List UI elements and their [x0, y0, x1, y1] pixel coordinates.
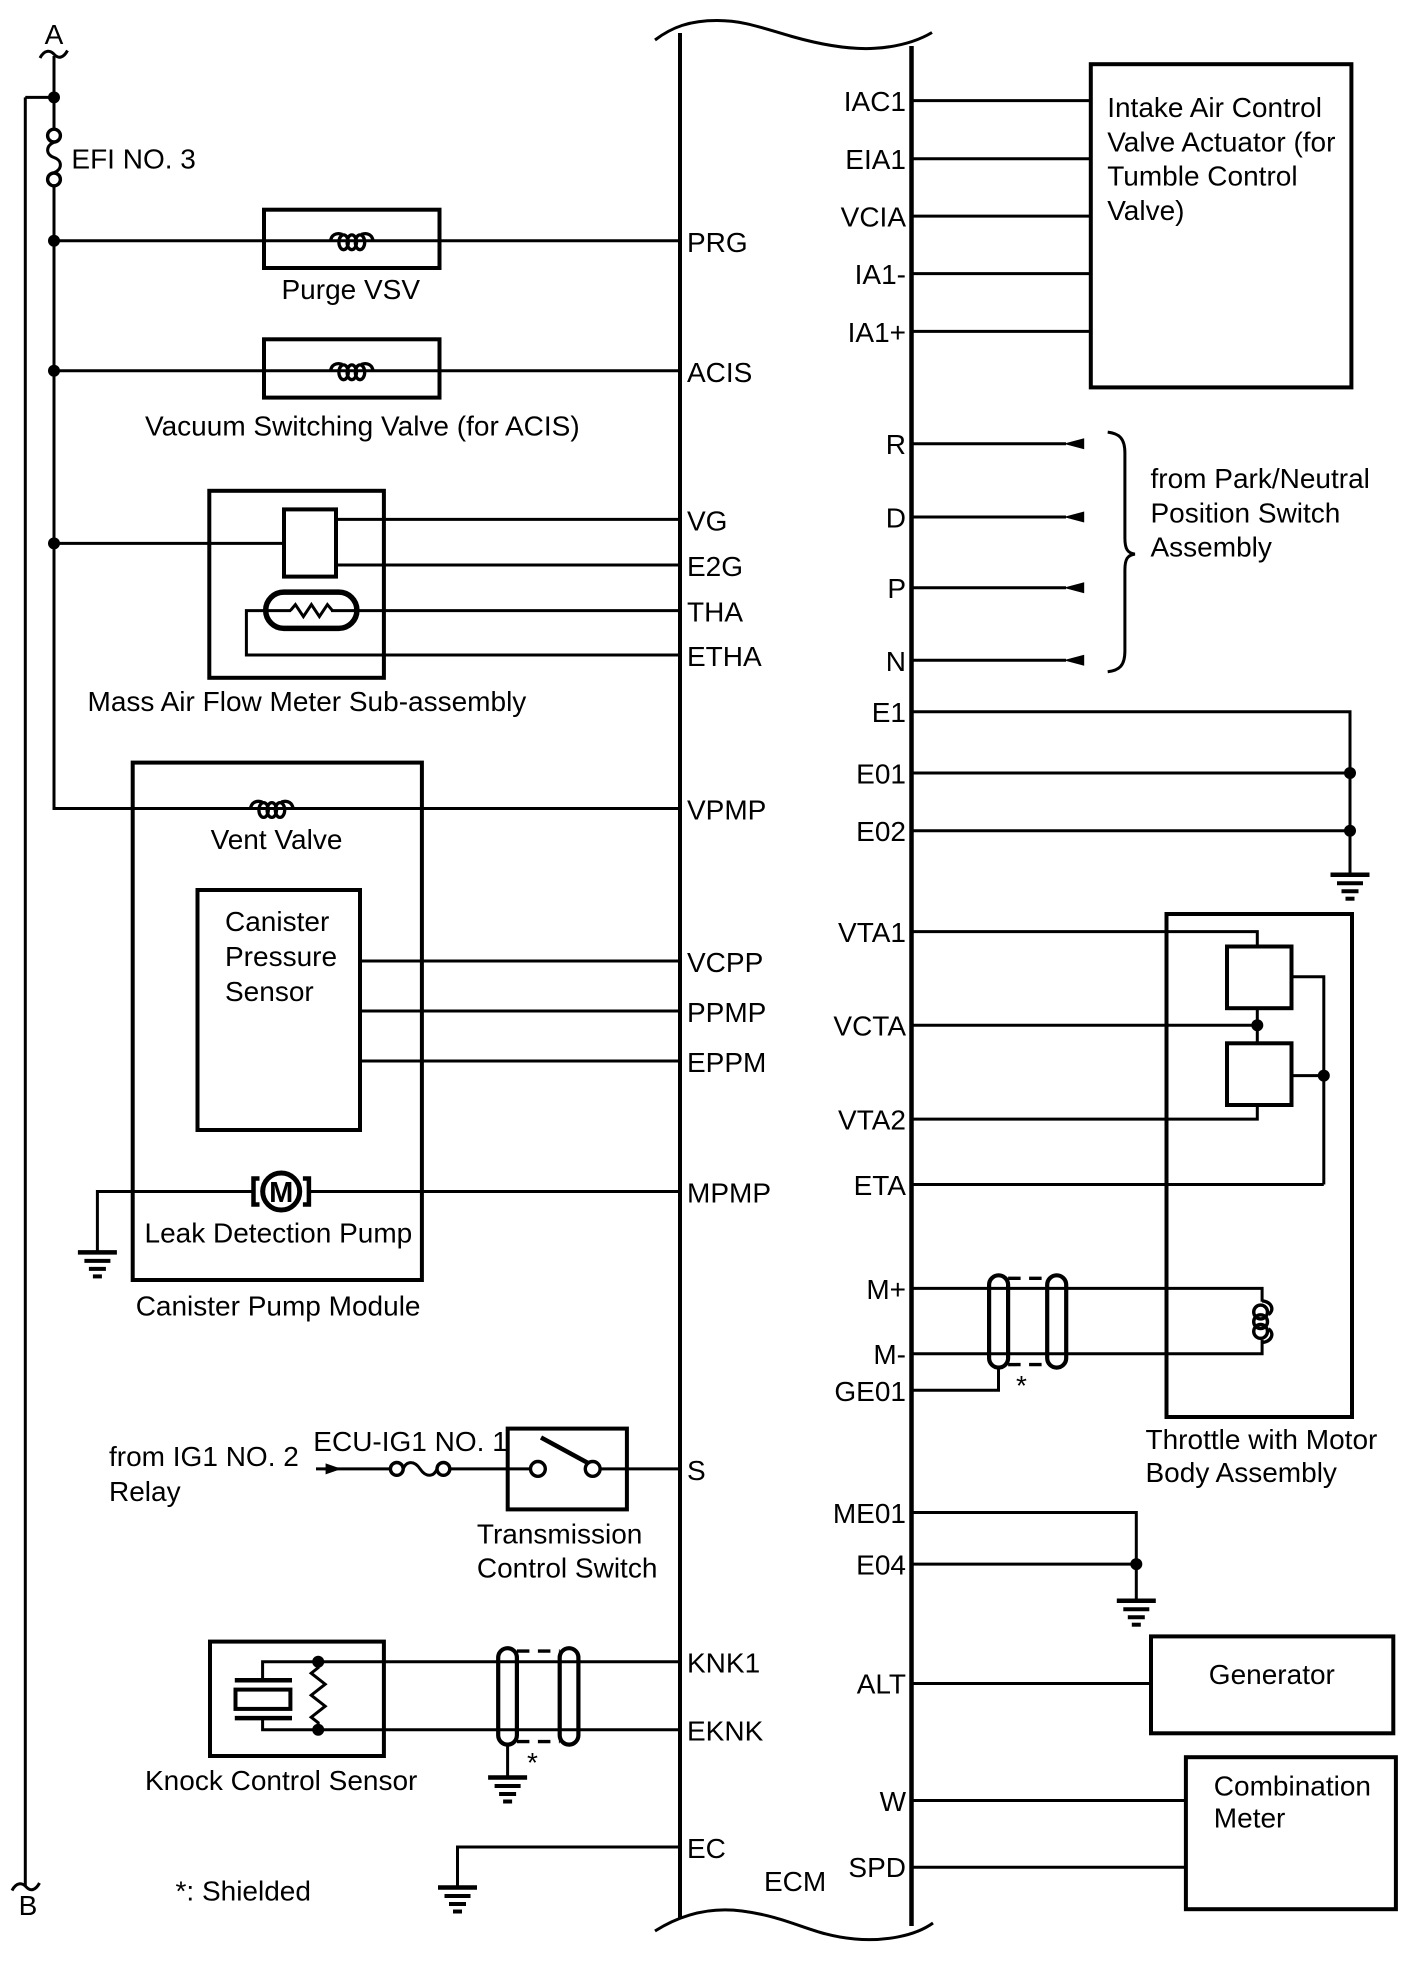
svg-text:EFI NO. 3: EFI NO. 3 [71, 144, 195, 175]
Throttle with Motor Body Assembly box [1167, 914, 1353, 1417]
arrow N [1064, 655, 1085, 666]
wire feed to PRG pin [54, 239, 680, 242]
Intake Air Control Valve Actuator box [1091, 64, 1352, 387]
shielded cable (motor): dashed shield top [1008, 1277, 1047, 1280]
svg-text:R: R [886, 429, 906, 460]
connector between sensor elements [1256, 1008, 1259, 1043]
svg-text:PRG: PRG [687, 227, 748, 258]
shielded cable (motor): right shield oval [1047, 1275, 1066, 1367]
wire SPD [912, 1866, 1186, 1869]
svg-text:M+: M+ [866, 1274, 906, 1305]
throttle position sensor element 2 [1227, 1043, 1292, 1105]
wire EIA1 [912, 157, 1091, 160]
ground (EC) [438, 1888, 477, 1912]
svg-text:ETHA: ETHA [687, 641, 762, 672]
svg-text:M: M [269, 1177, 293, 1209]
wire S to ECM [600, 1467, 680, 1470]
junction E01 [1344, 767, 1356, 779]
wire from fuse to transmission control switch [450, 1467, 538, 1470]
junction VCTA [1251, 1019, 1263, 1031]
junction resistor top [312, 1656, 324, 1668]
wire from fuse down the feed bus [53, 186, 56, 809]
svg-text:Purge VSV: Purge VSV [282, 274, 421, 305]
arrow P [1064, 582, 1085, 593]
shielded cable (knock): left shield oval [498, 1648, 517, 1744]
arrow R [1064, 438, 1085, 449]
junction sensor right tap [1318, 1070, 1330, 1082]
shielded cable (knock): right shield oval [560, 1648, 579, 1744]
svg-text:*: Shielded: *: Shielded [176, 1876, 311, 1907]
svg-text:VTA1: VTA1 [838, 917, 906, 948]
node B break (tilde) [12, 1883, 40, 1891]
svg-text:Vent Valve: Vent Valve [211, 824, 343, 855]
svg-text:ETA: ETA [854, 1170, 907, 1201]
wire feed into mass air flow sensor element [54, 542, 286, 545]
shielded cable (knock): dashed shield top [517, 1649, 560, 1652]
wire EPPM [360, 1060, 680, 1063]
wire from junction A left to bus B [25, 96, 54, 99]
svg-text:N: N [886, 646, 906, 677]
svg-text:A: A [45, 19, 64, 50]
Purge VSV solenoid coil [331, 234, 374, 250]
wire VTA2 into sensor element 2 [912, 1105, 1258, 1119]
wire N [912, 659, 1067, 662]
wire P [912, 586, 1067, 589]
throttle position sensor element 1 [1227, 947, 1292, 1009]
Vent Valve solenoid coil [250, 801, 293, 817]
svg-text:*: * [1016, 1370, 1027, 1401]
junction resistor bottom [312, 1724, 324, 1736]
wire D [912, 516, 1067, 519]
wire E2G [336, 564, 680, 567]
Purge VSV box [264, 210, 440, 268]
wire from thermistor left to ETHA return [246, 611, 680, 655]
ECM module: bottom torn (wavy) edge [655, 1910, 933, 1940]
Canister Pump Module box [133, 763, 422, 1280]
fuse ECU-IG1 NO. 1: left terminal circle [390, 1463, 403, 1476]
svg-text:ME01: ME01 [833, 1498, 906, 1529]
wire GE01 to shield [912, 1368, 999, 1391]
svg-text:Knock Control Sensor: Knock Control Sensor [145, 1765, 417, 1796]
junction E04 [1130, 1558, 1142, 1570]
svg-text:E2G: E2G [687, 551, 743, 582]
Generator box [1151, 1636, 1393, 1733]
svg-text:B: B [19, 1890, 38, 1921]
switch left contact [531, 1462, 546, 1477]
wire from motor to ground [97, 1192, 253, 1253]
wire feed to ACIS pin [54, 369, 680, 372]
fuse EFI NO. 3: bottom terminal circle [48, 173, 61, 186]
piezo element bottom plate [235, 1716, 292, 1721]
ground (knock shield) [488, 1778, 527, 1802]
svg-text:ACIS: ACIS [687, 357, 752, 388]
wire VG [336, 518, 680, 521]
ground (E1/E01/E02) [1331, 875, 1370, 899]
svg-text:SPD: SPD [848, 1852, 906, 1883]
wire from E04 junction to ground [1135, 1564, 1138, 1599]
wire IA1- [912, 272, 1091, 275]
svg-text:VCPP: VCPP [687, 947, 763, 978]
wire MPMP from motor to ECM [309, 1190, 680, 1193]
svg-text:ECU-IG1 NO. 1: ECU-IG1 NO. 1 [313, 1426, 507, 1457]
resistor (knock sensor) zigzag [311, 1662, 325, 1729]
svg-text:EKNK: EKNK [687, 1716, 764, 1747]
piezo element crystal [236, 1690, 291, 1709]
svg-text:VCIA: VCIA [841, 202, 907, 233]
svg-text:KNK1: KNK1 [687, 1648, 760, 1679]
svg-text:S: S [687, 1455, 706, 1486]
svg-text:Mass Air Flow Meter Sub-assemb: Mass Air Flow Meter Sub-assembly [88, 686, 527, 717]
brace for park/neutral position switch [1108, 432, 1135, 672]
sensor element 2 right tap [1292, 1074, 1324, 1077]
wire VTA1 into throttle position sensor [912, 932, 1258, 947]
svg-text:ECM: ECM [764, 1866, 826, 1897]
svg-text:Vacuum Switching Valve (for AC: Vacuum Switching Valve (for ACIS) [145, 411, 580, 442]
svg-text:*: * [527, 1747, 538, 1778]
svg-text:W: W [880, 1786, 907, 1817]
Mass Air Flow Meter box [209, 491, 384, 678]
thermistor resistor zigzag [290, 605, 332, 617]
leak detection pump motor M [254, 1173, 309, 1210]
svg-text:E02: E02 [856, 816, 906, 847]
svg-text:E01: E01 [856, 759, 906, 790]
wire R [912, 442, 1067, 445]
junction at ACIS feed [48, 365, 60, 377]
ECM left boundary line [678, 33, 682, 1918]
wire E02 [912, 829, 1351, 832]
sensor element right-side return wire [1292, 977, 1324, 1185]
intake air temperature thermistor (oval) [266, 592, 357, 628]
ground (ME01/E04) [1117, 1601, 1156, 1625]
svg-text:ALT: ALT [857, 1669, 906, 1700]
junction at Mass Air Flow feed [48, 537, 60, 549]
svg-text:VPMP: VPMP [687, 795, 766, 826]
wire ETA [912, 1183, 1324, 1186]
node A break (tilde) [40, 51, 68, 59]
ECM module: top torn (wavy) edge [655, 21, 932, 49]
ECM right boundary line [909, 46, 914, 1926]
piezo element top plate [235, 1678, 292, 1683]
wire THA [331, 609, 680, 612]
fuse ECU-IG1 NO. 1: element wave [403, 1463, 437, 1476]
svg-text:EC: EC [687, 1833, 726, 1864]
wire E01 [912, 772, 1351, 775]
fuse EFI NO. 3: element wave [48, 142, 61, 173]
Combination Meter box [1186, 1757, 1396, 1909]
shield drain wire to ground [506, 1745, 509, 1778]
svg-text:M-: M- [873, 1339, 906, 1370]
Canister Pressure Sensor box [198, 890, 361, 1130]
svg-text:PPMP: PPMP [687, 997, 766, 1028]
wire W [912, 1799, 1186, 1802]
shielded cable (motor): dashed shield bottom [1008, 1363, 1047, 1366]
arrow D [1064, 512, 1085, 523]
wire ME01 [912, 1513, 1137, 1565]
shielded cable (knock): dashed shield bottom [517, 1740, 560, 1743]
throttle motor coil [1254, 1301, 1272, 1343]
switch right contact [585, 1462, 600, 1477]
Vacuum Switching Valve (for ACIS) box [264, 339, 440, 397]
Transmission Control Switch box [508, 1429, 627, 1510]
wire M+ to throttle motor [912, 1288, 1263, 1301]
bus wire down left edge to node B [24, 97, 27, 1886]
wire ALT [912, 1682, 1152, 1685]
svg-text:Generator: Generator [1209, 1659, 1335, 1690]
svg-text:E04: E04 [856, 1550, 906, 1581]
svg-text:Canister Pump Module: Canister Pump Module [136, 1290, 421, 1321]
wire VCTA [912, 1024, 1258, 1027]
wire from node A down to junction [53, 56, 56, 133]
junction at PRG feed [48, 235, 60, 247]
Knock Control Sensor box [210, 1642, 384, 1756]
svg-text:THA: THA [687, 597, 743, 628]
svg-text:VCTA: VCTA [833, 1011, 906, 1042]
Vacuum Switching Valve solenoid coil [331, 364, 374, 380]
svg-text:EPPM: EPPM [687, 1047, 766, 1078]
fuse ECU-IG1 NO. 1: right terminal circle [437, 1463, 450, 1476]
wire VCPP [360, 960, 680, 963]
svg-text:E1: E1 [872, 697, 906, 728]
wire from top plate to KNK1 [263, 1662, 680, 1681]
ground (leak detection pump) [78, 1252, 117, 1276]
wire M- from throttle motor [912, 1340, 1263, 1354]
junction A [48, 91, 60, 103]
svg-text:VTA2: VTA2 [838, 1105, 906, 1136]
wire IA1+ [912, 330, 1091, 333]
fuse EFI NO. 3: top terminal circle [48, 129, 61, 142]
wire E04 [912, 1563, 1137, 1566]
svg-text:IAC1: IAC1 [844, 86, 906, 117]
svg-text:EIA1: EIA1 [845, 144, 906, 175]
wire VCIA [912, 215, 1091, 218]
arrow on relay feed wire [326, 1463, 342, 1474]
svg-text:GE01: GE01 [834, 1376, 906, 1407]
wire PPMP [360, 1010, 680, 1013]
wire IAC1 [912, 99, 1091, 102]
svg-text:P: P [887, 573, 906, 604]
wire from bottom plate to EKNK [263, 1718, 680, 1730]
wire from IG1 NO. 2 relay [316, 1467, 390, 1470]
svg-text:Leak Detection Pump: Leak Detection Pump [145, 1218, 413, 1249]
svg-text:VG: VG [687, 505, 727, 536]
svg-text:IA1+: IA1+ [848, 317, 906, 348]
wire E1 [912, 712, 1351, 873]
svg-text:MPMP: MPMP [687, 1178, 771, 1209]
svg-text:IA1-: IA1- [855, 259, 906, 290]
MAF sensing element box [284, 509, 336, 576]
switch blade [541, 1438, 588, 1464]
wire EC to ground [458, 1847, 681, 1888]
shielded cable (motor): left shield oval [989, 1275, 1008, 1367]
wire VPMP from feed bus elbow to ECM [54, 807, 680, 809]
junction E02 [1344, 825, 1356, 837]
svg-text:D: D [886, 503, 906, 534]
